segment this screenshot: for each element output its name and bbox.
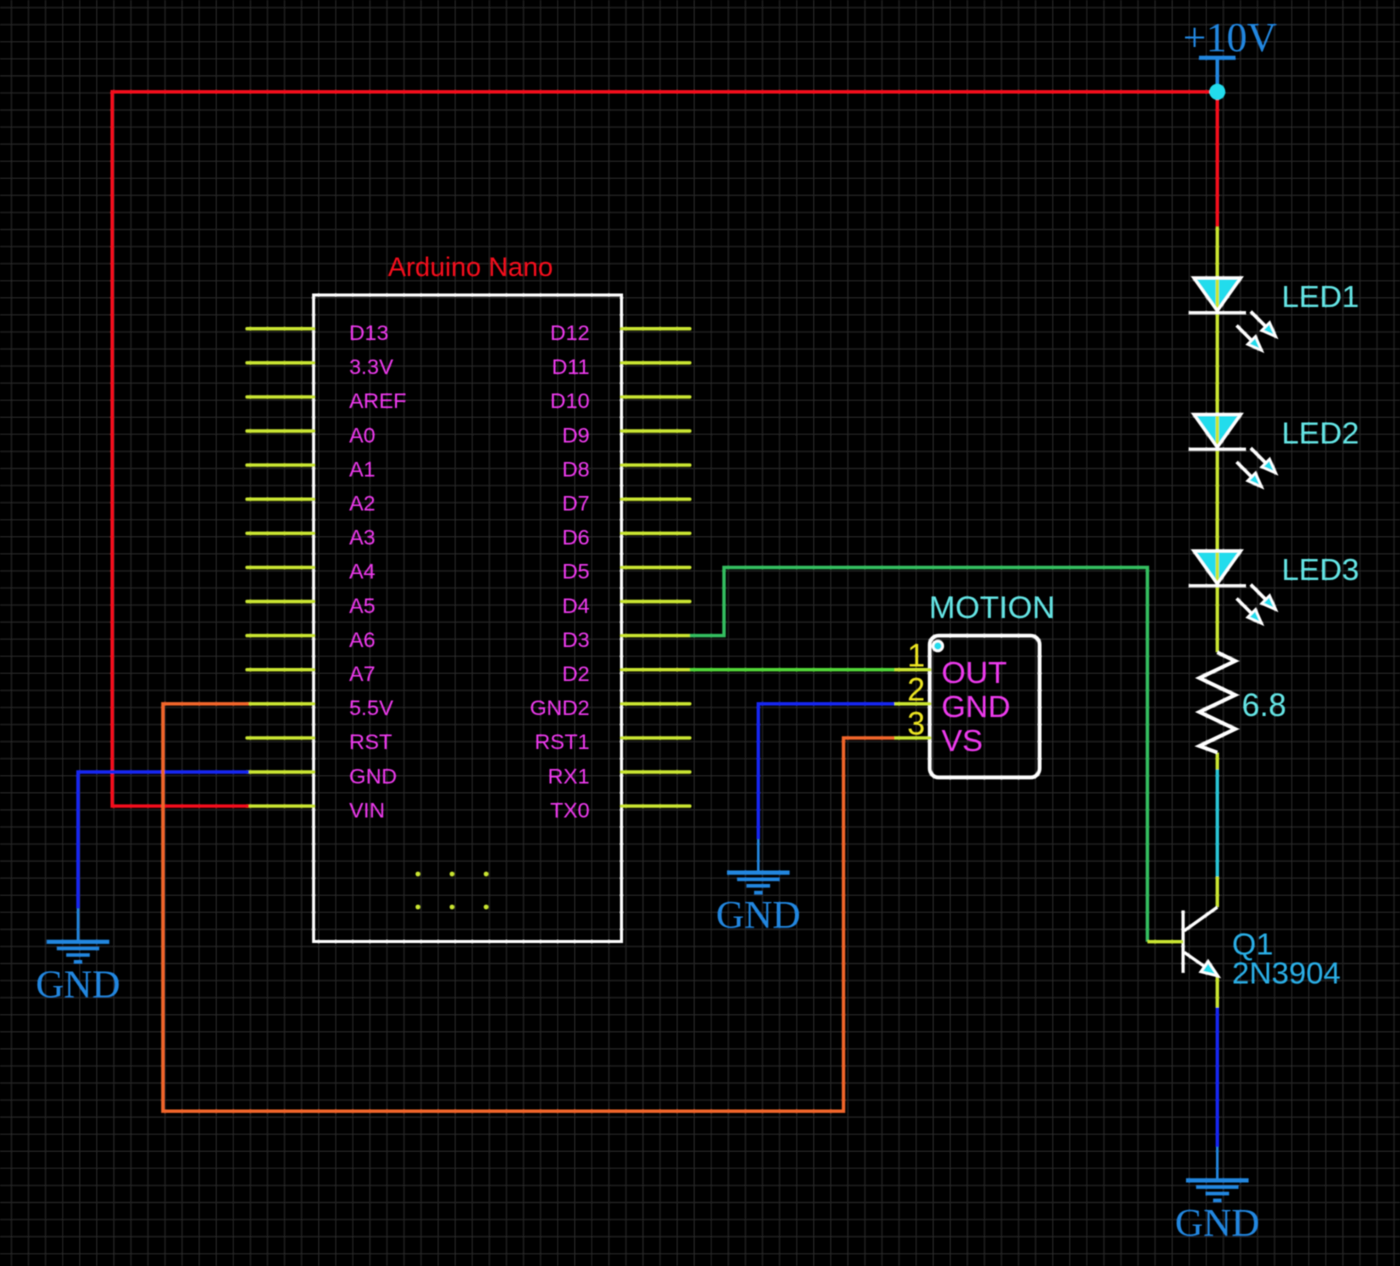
wire: blue emitter to ground	[1216, 1008, 1219, 1148]
MOTION pin stub 3	[894, 736, 929, 739]
MOTION pin stub 2	[894, 702, 929, 705]
LED LED2	[1189, 384, 1276, 487]
svg-text:MOTION: MOTION	[929, 589, 1055, 625]
wire: red left vertical to VIN	[110, 90, 113, 808]
svg-text:RX1: RX1	[548, 764, 590, 788]
LED LED3	[1189, 521, 1276, 624]
svg-text:2N3904: 2N3904	[1232, 955, 1341, 990]
pin stub left A0	[247, 429, 314, 432]
svg-text:RST: RST	[349, 730, 392, 754]
pin stub left RST	[247, 736, 314, 739]
LED LED1	[1189, 248, 1276, 351]
svg-text:GND2: GND2	[530, 696, 590, 720]
pin stub right TX0	[622, 804, 690, 807]
wire: chartreuse collector stub	[1216, 877, 1219, 908]
Q1 base stub	[1147, 940, 1183, 943]
pin stub left A4	[247, 566, 314, 569]
svg-text:+10V: +10V	[1183, 14, 1277, 60]
wire: red vertical from +10V junction down to LED1 anode	[1216, 92, 1219, 227]
svg-text:LED2: LED2	[1282, 415, 1360, 450]
pin stub left A5	[247, 600, 314, 603]
svg-text:D7: D7	[562, 492, 589, 516]
pin stub right D5	[622, 566, 690, 569]
pin stub right D7	[622, 498, 690, 501]
svg-text:Arduino Nano: Arduino Nano	[388, 252, 553, 282]
svg-text:OUT: OUT	[942, 655, 1008, 690]
pin stub right GND2	[622, 702, 690, 705]
svg-text:D2: D2	[562, 662, 589, 686]
wire: turquoise segment resistor to collector	[1216, 770, 1219, 877]
pin stub right RST1	[622, 736, 690, 739]
pin stub left VIN	[247, 804, 314, 807]
junction dot	[1209, 84, 1225, 100]
pin stub left AREF	[247, 395, 314, 398]
pin stub left A7	[247, 668, 314, 671]
svg-text:D11: D11	[552, 355, 590, 379]
MOTION sensor U2 box	[930, 636, 1040, 778]
svg-text:D13: D13	[349, 321, 388, 345]
pin stub left GND	[247, 770, 314, 773]
svg-text:A7: A7	[349, 662, 375, 686]
ground (left, Arduino GND)	[47, 908, 110, 961]
svg-text:D10: D10	[550, 389, 589, 413]
pin stub left A3	[247, 532, 314, 535]
wire: lime D2 to MOTION OUT	[690, 668, 895, 671]
svg-text:D4: D4	[562, 594, 590, 618]
svg-text:TX0: TX0	[550, 798, 589, 822]
svg-text:GND: GND	[942, 689, 1011, 724]
svg-text:VIN: VIN	[349, 798, 385, 822]
svg-text:5.5V: 5.5V	[349, 696, 394, 720]
svg-text:AREF: AREF	[349, 389, 406, 413]
svg-text:A4: A4	[349, 560, 375, 584]
pin stub right RX1	[622, 770, 690, 773]
svg-text:VS: VS	[942, 723, 983, 758]
svg-text:D12: D12	[550, 321, 589, 345]
pin stub right D2	[622, 668, 690, 671]
pin stub right D4	[622, 600, 690, 603]
svg-text:GND: GND	[349, 764, 397, 788]
svg-text:A1: A1	[349, 457, 375, 481]
pin stub left A6	[247, 634, 314, 637]
pin stub left 5.5V	[247, 702, 314, 705]
svg-text:D3: D3	[562, 628, 590, 652]
pin stub right D6	[622, 532, 690, 535]
pin stub right D12	[622, 327, 690, 330]
resistor R1 6.8	[1199, 652, 1235, 752]
wire: red horizontal into VIN pin	[112, 804, 249, 807]
svg-text:A2: A2	[349, 492, 375, 516]
transistor Q1 2N3904	[1183, 907, 1218, 976]
svg-text:LED3: LED3	[1282, 552, 1360, 587]
pin stub left A2	[247, 498, 314, 501]
svg-text:LED1: LED1	[1282, 279, 1360, 314]
svg-text:A3: A3	[349, 526, 375, 550]
decorative dots inside arduino	[416, 872, 421, 877]
pin stub right D9	[622, 429, 690, 432]
svg-text:A0: A0	[349, 423, 375, 447]
wire: orange 5.5V to MOTION VS	[163, 704, 895, 1111]
svg-text:GND: GND	[716, 894, 801, 937]
svg-text:3: 3	[907, 706, 925, 742]
wire: blue MOTION GND pin to ground	[758, 704, 894, 839]
svg-text:GND: GND	[1175, 1201, 1260, 1244]
wire: +10V net, top horizontal red	[111, 90, 1218, 93]
svg-text:D6: D6	[562, 526, 590, 550]
svg-text:RST1: RST1	[535, 730, 590, 754]
wire: chartreuse stub below resistor	[1216, 753, 1219, 770]
svg-text:3.3V: 3.3V	[349, 355, 394, 379]
power +10V symbol	[1199, 58, 1236, 92]
Arduino Nano U1 box	[314, 295, 622, 942]
wire: green D3 to Q1 base	[690, 567, 1148, 941]
svg-text:D9: D9	[562, 423, 589, 447]
ground (right, emitter)	[1186, 1147, 1249, 1200]
MOTION pin stub 1	[894, 668, 929, 671]
svg-text:A6: A6	[349, 628, 375, 652]
pin stub right D3	[622, 634, 690, 637]
svg-text:1: 1	[907, 638, 925, 674]
wire: blue GND pin left	[78, 772, 249, 908]
svg-text:GND: GND	[36, 963, 121, 1006]
svg-text:6.8: 6.8	[1242, 687, 1286, 723]
pin stub left 3.3V	[247, 361, 314, 364]
wire: chartreuse emitter stub	[1216, 976, 1219, 1008]
wire: LED chain vertical chartreuse (anode stub through LEDs to resistor)	[1216, 227, 1219, 653]
svg-text:A5: A5	[349, 594, 375, 618]
pin stub left D13	[247, 327, 314, 330]
ground (middle, MOTION GND)	[727, 839, 790, 892]
svg-text:2: 2	[907, 672, 925, 708]
pin stub right D8	[622, 463, 690, 466]
pin stub left A1	[247, 463, 314, 466]
svg-text:D8: D8	[562, 457, 590, 481]
pin stub right D10	[622, 395, 690, 398]
pin stub right D11	[622, 361, 690, 364]
pin-1 indicator dot	[932, 640, 945, 653]
svg-text:D5: D5	[562, 560, 590, 584]
